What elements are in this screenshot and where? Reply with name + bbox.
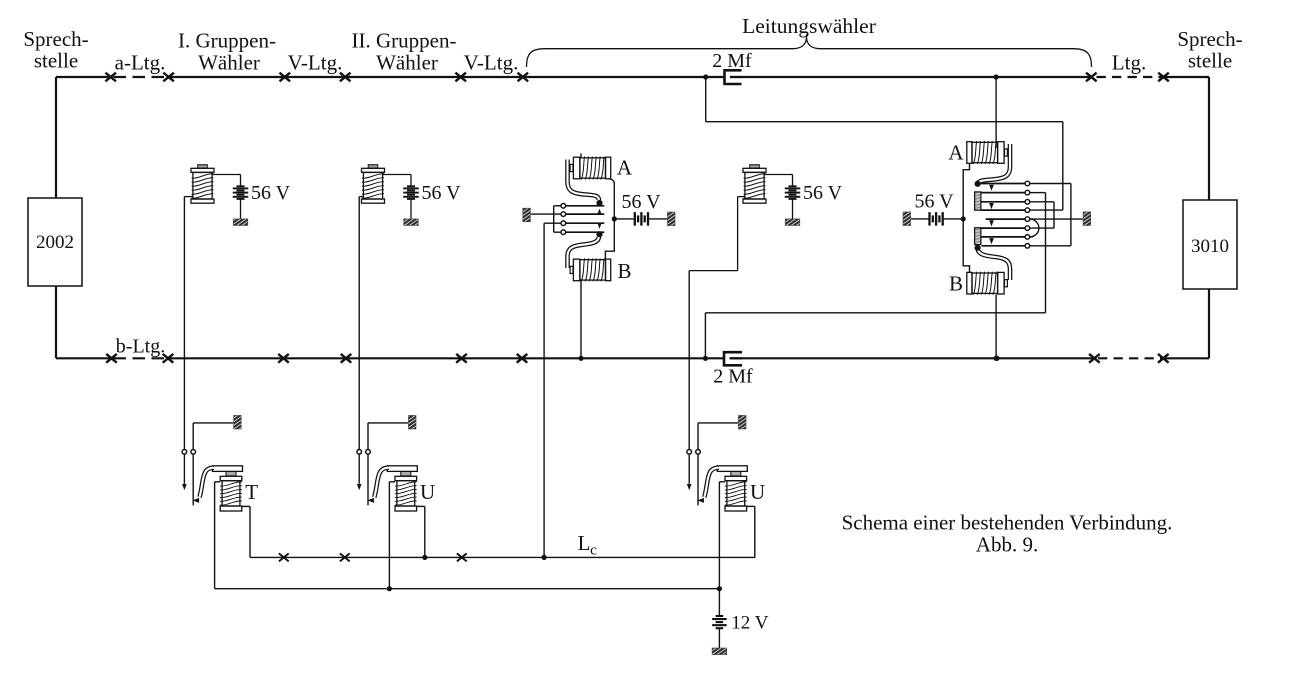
svg-text:U: U xyxy=(750,480,765,504)
svg-text:56 V: 56 V xyxy=(422,182,462,204)
svg-text:L: L xyxy=(578,531,591,555)
svg-text:Schema einer bestehenden Verbi: Schema einer bestehenden Verbindung. xyxy=(842,511,1173,535)
svg-text:Leitungswähler: Leitungswähler xyxy=(742,14,876,38)
svg-text:12 V: 12 V xyxy=(731,613,768,634)
svg-text:2002: 2002 xyxy=(36,232,74,253)
svg-text:stelle: stelle xyxy=(34,49,78,73)
svg-text:3010: 3010 xyxy=(1191,236,1229,257)
svg-text:A: A xyxy=(948,141,964,165)
svg-text:A: A xyxy=(617,156,633,180)
svg-text:b-Ltg.: b-Ltg. xyxy=(116,336,165,358)
svg-text:56 V: 56 V xyxy=(803,182,843,204)
svg-text:II. Gruppen-: II. Gruppen- xyxy=(352,29,457,53)
svg-text:56 V: 56 V xyxy=(621,191,661,213)
svg-text:I. Gruppen-: I. Gruppen- xyxy=(178,29,276,53)
svg-text:a-Ltg.: a-Ltg. xyxy=(115,50,166,74)
svg-text:B: B xyxy=(949,272,963,296)
svg-text:V-Ltg.: V-Ltg. xyxy=(464,50,519,74)
svg-text:2 Mf: 2 Mf xyxy=(713,366,753,388)
svg-text:c: c xyxy=(590,543,597,559)
svg-text:56 V: 56 V xyxy=(914,191,954,213)
svg-text:B: B xyxy=(617,259,631,283)
svg-text:Abb. 9.: Abb. 9. xyxy=(976,533,1038,557)
svg-text:Ltg.: Ltg. xyxy=(1112,50,1146,74)
svg-text:Wähler: Wähler xyxy=(198,50,260,74)
svg-text:2 Mf: 2 Mf xyxy=(712,50,752,72)
svg-text:V-Ltg.: V-Ltg. xyxy=(288,50,343,74)
svg-text:Sprech-: Sprech- xyxy=(1177,27,1242,51)
svg-text:U: U xyxy=(420,480,435,504)
svg-text:Sprech-: Sprech- xyxy=(23,27,88,51)
svg-text:56 V: 56 V xyxy=(251,182,291,204)
svg-text:Wähler: Wähler xyxy=(376,50,438,74)
svg-text:T: T xyxy=(245,480,258,504)
svg-text:stelle: stelle xyxy=(1188,49,1232,73)
